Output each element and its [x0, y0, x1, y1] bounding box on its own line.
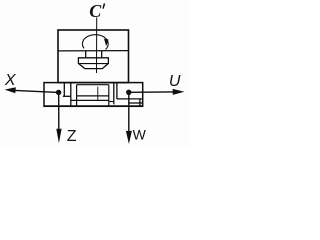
spindle flange	[78, 58, 108, 69]
table top	[77, 84, 109, 86]
spindle centerline	[96, 17, 98, 73]
U axis arrow	[129, 91, 173, 93]
X axis arrow	[15, 90, 59, 92]
bed slab bottom heavy line	[44, 105, 143, 107]
table line 2	[71, 99, 109, 101]
right lower horizontal	[129, 102, 143, 104]
rotation arrowhead	[104, 39, 109, 47]
column mid line	[58, 50, 129, 52]
table line 1	[77, 95, 109, 97]
spindle neck left	[85, 51, 87, 58]
rotation arrow C' circle arc	[82, 35, 108, 50]
left bracket vertical 1	[63, 83, 65, 97]
svg-text:W: W	[133, 127, 147, 143]
left bracket vertical 2	[70, 83, 72, 107]
right bracket shelf	[117, 98, 143, 100]
column body	[58, 30, 129, 83]
node right (U/W origin)	[126, 90, 131, 95]
node left (X/Z origin)	[56, 90, 61, 95]
flange step line	[78, 63, 108, 65]
table left edge	[76, 85, 78, 107]
svg-text:C: C	[89, 1, 102, 21]
table right edge	[108, 85, 110, 107]
left bracket shelf	[63, 95, 71, 97]
right bracket vertical 2	[116, 83, 118, 99]
right bracket vertical 1	[113, 83, 115, 105]
svg-text:X: X	[4, 72, 17, 89]
table centre divider	[97, 87, 99, 101]
svg-text:Z: Z	[67, 128, 77, 145]
right bracket vertical 3	[139, 99, 141, 106]
svg-text:U: U	[169, 73, 181, 90]
W axis arrow	[128, 92, 130, 131]
spindle neck right	[101, 51, 103, 58]
right bracket lower horizontal	[109, 101, 114, 103]
Z axis arrow	[58, 92, 60, 130]
bed slab	[44, 83, 143, 107]
